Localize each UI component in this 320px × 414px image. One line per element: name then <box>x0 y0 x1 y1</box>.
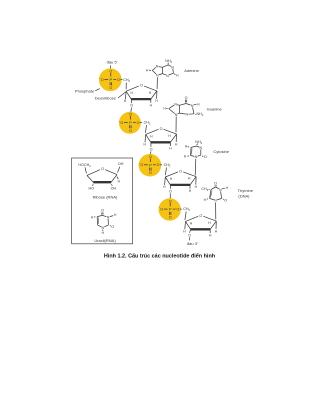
svg-text:O: O <box>179 169 182 173</box>
svg-text:O: O <box>169 199 172 203</box>
svg-text:O: O <box>199 214 202 218</box>
svg-text:N: N <box>171 65 174 69</box>
svg-text:N: N <box>185 113 188 117</box>
svg-text:N: N <box>175 113 178 117</box>
svg-text:O: O <box>149 155 152 159</box>
svg-text:O: O <box>130 104 133 108</box>
svg-text:OH: OH <box>111 186 117 190</box>
svg-text:N: N <box>166 74 169 78</box>
svg-text:O: O <box>109 70 112 74</box>
svg-text:P: P <box>109 77 112 82</box>
svg-text:O: O <box>169 216 172 220</box>
svg-text:N: N <box>107 216 110 220</box>
svg-text:O: O <box>101 78 104 82</box>
svg-text:O: O <box>150 147 153 151</box>
svg-text:O: O <box>137 121 140 125</box>
svg-text:P: P <box>149 162 152 167</box>
svg-text:O: O <box>157 163 160 167</box>
svg-text:O: O <box>188 233 191 237</box>
svg-text:N: N <box>191 104 194 108</box>
svg-text:N: N <box>195 155 198 159</box>
svg-text:(DNA): (DNA) <box>238 193 250 198</box>
svg-text:Hình 1.2. Cấu trúc các nucleot: Hình 1.2. Cấu trúc các nucleotide điển h… <box>104 252 215 259</box>
svg-text:đầu 3′: đầu 3′ <box>187 241 198 246</box>
svg-text:O: O <box>129 129 132 133</box>
svg-text:N: N <box>156 65 159 69</box>
svg-text:Cytosine: Cytosine <box>213 149 229 154</box>
svg-text:N: N <box>156 74 159 78</box>
svg-text:N: N <box>101 226 104 230</box>
svg-text:P: P <box>169 207 172 212</box>
svg-text:Guanine: Guanine <box>207 106 223 111</box>
svg-text:Ribose (RNA): Ribose (RNA) <box>93 194 118 199</box>
svg-text:N: N <box>199 146 202 150</box>
svg-text:O: O <box>129 113 132 117</box>
svg-text:O: O <box>101 167 104 171</box>
svg-text:O: O <box>101 209 104 213</box>
svg-text:Adenine: Adenine <box>184 68 199 73</box>
svg-text:O: O <box>120 121 123 125</box>
svg-text:O: O <box>169 189 172 193</box>
svg-text:O: O <box>176 208 179 212</box>
svg-text:O: O <box>111 225 114 229</box>
svg-text:HO: HO <box>89 186 95 190</box>
svg-text:O: O <box>117 78 120 82</box>
svg-text:N: N <box>214 199 217 203</box>
svg-text:O: O <box>160 127 163 131</box>
svg-text:O: O <box>214 181 217 185</box>
svg-text:đầu 5′: đầu 5′ <box>107 60 118 65</box>
svg-text:OH: OH <box>118 162 124 166</box>
svg-text:O: O <box>140 163 143 167</box>
svg-text:P: P <box>129 120 132 125</box>
svg-text:N: N <box>174 102 177 106</box>
svg-text:O: O <box>149 171 152 175</box>
svg-text:O: O <box>140 84 143 88</box>
svg-text:Phosphate: Phosphate <box>75 89 95 94</box>
svg-text:O: O <box>224 199 227 203</box>
svg-text:O: O <box>109 86 112 90</box>
svg-text:O: O <box>204 155 207 159</box>
svg-text:O: O <box>160 208 163 212</box>
svg-text:N: N <box>219 188 222 192</box>
svg-text:Uracil(RNA): Uracil(RNA) <box>94 238 116 243</box>
svg-text:Deoxiribose: Deoxiribose <box>95 96 117 101</box>
svg-text:O: O <box>185 96 188 100</box>
